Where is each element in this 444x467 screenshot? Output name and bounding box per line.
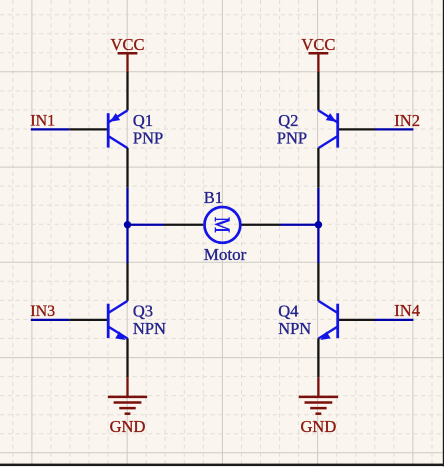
transistor Q2 (PNP): [318, 110, 337, 148]
svg-text:IN2: IN2: [394, 111, 420, 130]
wire IN3 to Q3 base: [69, 319, 107, 321]
wire IN3 blue segment: [31, 319, 69, 321]
junction right motor node: [315, 221, 322, 228]
wire Q3 emitter to GND: [126, 338, 128, 377]
wire IN1 to Q1 base: [69, 128, 107, 130]
wire IN2 blue segment: [375, 128, 413, 130]
ground GND (right): [299, 377, 338, 436]
wire Q1 collector down (black): [126, 148, 128, 188]
svg-text:PNP: PNP: [277, 128, 307, 147]
wire Q2 collector down (black): [317, 148, 319, 188]
svg-text:VCC: VCC: [111, 35, 145, 54]
power port VCC (left): [111, 35, 145, 72]
svg-text:Q1: Q1: [133, 111, 153, 130]
svg-text:IN3: IN3: [30, 303, 55, 320]
wire motor to node (black): [242, 224, 281, 226]
svg-text:Q4: Q4: [278, 302, 298, 321]
svg-text:VCC: VCC: [301, 35, 335, 54]
ground GND (left): [108, 377, 147, 436]
svg-text:PNP: PNP: [133, 128, 163, 147]
wire left mid vertical (blue): [126, 188, 128, 263]
svg-text:B1: B1: [204, 188, 223, 207]
wire node to motor (blue): [128, 224, 165, 226]
wire right mid vertical (blue): [317, 188, 319, 263]
transistor Q4 (NPN): [318, 301, 337, 340]
wire to Q4 collector (black): [317, 263, 319, 301]
transistor Q1 (PNP): [108, 110, 127, 148]
svg-text:NPN: NPN: [133, 319, 166, 338]
wire Q2 base to IN2 (black): [338, 128, 375, 130]
svg-text:GND: GND: [301, 417, 337, 436]
wire node right (blue): [280, 224, 318, 226]
svg-text:M: M: [210, 217, 234, 233]
transistor Q3 (NPN): [108, 301, 127, 340]
svg-text:GND: GND: [110, 417, 146, 436]
motor B1: [205, 207, 241, 243]
svg-text:IN4: IN4: [394, 301, 420, 320]
power port VCC (right): [301, 35, 335, 72]
wire IN4 blue segment: [375, 319, 413, 321]
junction left motor node: [124, 221, 131, 228]
wire VCC2 to Q2 emitter: [317, 72, 319, 110]
svg-text:Q2: Q2: [278, 111, 298, 130]
wire Q4 emitter to GND: [317, 338, 319, 377]
wire VCC1 to Q1 emitter: [126, 72, 128, 110]
wire Q4 base to IN4 (black): [338, 319, 375, 321]
wire to motor left terminal (black): [164, 224, 203, 226]
svg-text:NPN: NPN: [278, 319, 311, 338]
wire IN1 blue segment: [31, 128, 69, 130]
svg-text:IN1: IN1: [30, 113, 55, 130]
svg-text:Q3: Q3: [133, 302, 153, 321]
wire to Q3 collector (black): [126, 263, 128, 301]
svg-text:Motor: Motor: [204, 245, 247, 264]
